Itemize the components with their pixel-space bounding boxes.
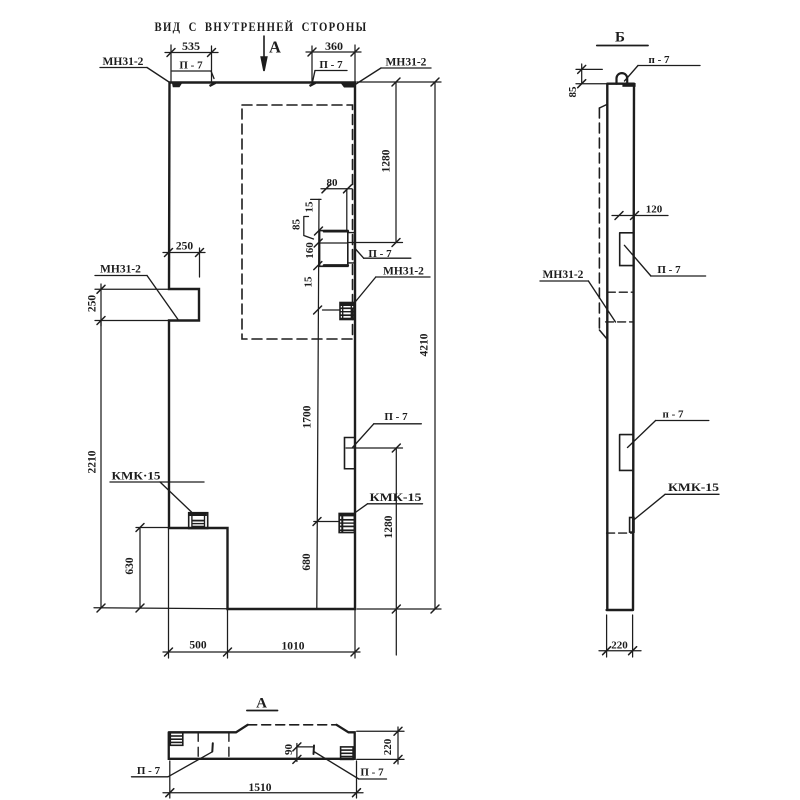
svg-text:КМК-15: КМК-15 (668, 482, 719, 494)
dim 360 extension lines (311, 46, 313, 83)
dim 1280 lower line (395, 448, 397, 655)
svg-text:КМК·15: КМК·15 (112, 469, 161, 483)
svg-text:1280: 1280 (383, 515, 395, 538)
label МН31-2 mid underline + leader (376, 276, 430, 278)
view Б embed П-7 upper (620, 233, 634, 266)
svg-text:120: 120 (646, 204, 663, 216)
view Б КМК-15 embed tick (630, 518, 634, 533)
svg-text:220: 220 (382, 738, 394, 755)
panel outline (main view) (169, 83, 355, 610)
embed МН31-2 top-left corner mark (172, 83, 182, 87)
view Б П-7 top plate (622, 83, 635, 87)
dim 535 line (165, 52, 218, 54)
svg-text:П - 7: П - 7 (360, 767, 384, 779)
svg-text:500: 500 (189, 640, 207, 652)
section A: dim 90 (296, 744, 298, 762)
view Б label П-7 upper underline + leader (651, 275, 706, 277)
section A: dim 220 (357, 730, 404, 732)
svg-text:МН31-2: МН31-2 (543, 269, 584, 281)
dim 1700 extension lines (323, 309, 341, 311)
view Б label КМК-15 underline + leader (665, 493, 719, 495)
dim 85 leader (304, 217, 314, 240)
svg-text:П - 7: П - 7 (384, 411, 408, 423)
section A underline of title (247, 710, 278, 712)
dim 1280 upper line (395, 82, 397, 243)
svg-text:250: 250 (176, 241, 194, 253)
svg-text:Б: Б (615, 30, 625, 46)
embed П-7 midright (345, 438, 356, 469)
section A: dim 1510 (169, 761, 171, 798)
svg-text:85: 85 (567, 86, 579, 98)
view Б lifting hook (617, 73, 628, 84)
recess dashed rectangle (242, 105, 353, 339)
view Б dim 120 (612, 215, 668, 217)
dim 500 / 1010 line (163, 651, 360, 653)
svg-text:МН31-2: МН31-2 (383, 266, 424, 278)
view Б title underline (597, 45, 648, 47)
embed МН31-2 mid-right (hatched box) (340, 303, 354, 320)
svg-text:2210: 2210 (87, 450, 99, 473)
dim 535 extension lines (170, 45, 172, 82)
svg-text:80: 80 (327, 177, 339, 189)
section A embed box left (hatched) (170, 733, 183, 746)
section A П-7 plate marks (211, 743, 214, 751)
view Б hidden step dashed line (607, 532, 633, 534)
svg-text:15: 15 (304, 201, 316, 213)
svg-text:П - 7: П - 7 (137, 765, 161, 777)
label П-7 mid underline + leader (364, 257, 411, 259)
svg-text:1280: 1280 (381, 149, 393, 172)
embed МН31-2 top-right corner mark (341, 84, 355, 88)
svg-text:ВИД С ВНУТРЕННЕЙ СТОРОНЫ: ВИД С ВНУТРЕННЕЙ СТОРОНЫ (155, 19, 368, 34)
svg-text:535: 535 (182, 39, 200, 53)
dim 630 line (139, 528, 141, 609)
svg-text:360: 360 (325, 39, 343, 53)
svg-text:15: 15 (303, 276, 315, 288)
svg-text:4210: 4210 (419, 333, 431, 356)
center dim stack: ext + long vertical line (311, 198, 321, 200)
svg-text:85: 85 (291, 219, 303, 231)
bottom right extension line (357, 608, 441, 610)
bottom-left extension line (94, 608, 228, 609)
dim 360 line (306, 51, 361, 53)
dim 80 line (321, 188, 352, 190)
view Б label п-7 underline + leader (638, 65, 700, 67)
section A outline (169, 725, 355, 759)
svg-text:1010: 1010 (282, 641, 305, 653)
dim 2210 line (100, 321, 102, 609)
svg-text:П - 7: П - 7 (319, 59, 343, 71)
label КМК-15 right underline + leader (368, 503, 423, 505)
svg-text:А: А (256, 696, 267, 712)
svg-text:250: 250 (87, 295, 99, 313)
section A embed box right (hatched) (341, 747, 354, 760)
svg-text:1510: 1510 (249, 782, 272, 794)
svg-text:1700: 1700 (302, 405, 314, 428)
view Б dim 220 (606, 615, 608, 657)
svg-text:160: 160 (304, 242, 316, 259)
label МН31-2 top-right underline + leader (381, 67, 431, 69)
svg-text:П - 7: П - 7 (179, 60, 203, 72)
section A: П-7 left underline + leader (132, 776, 169, 778)
section A: П-7 right underline + leader (359, 778, 387, 780)
section marker A arrow (top) (261, 36, 267, 71)
label МН31-2 top-left underline + leader (100, 67, 147, 69)
view Б label МН31-2 underline + leader (540, 280, 588, 282)
svg-text:680: 680 (301, 553, 313, 571)
svg-text:А: А (269, 38, 281, 57)
embed КМК-15 left (hatched box) (189, 513, 208, 529)
svg-text:630: 630 (124, 557, 136, 575)
dim 4210 line (434, 82, 436, 609)
svg-text:МН31-2: МН31-2 (103, 56, 144, 68)
svg-text:90: 90 (283, 744, 295, 756)
label КМК-15 left underline + leader (110, 481, 204, 483)
label МН31-2 left underline + leader (95, 275, 147, 277)
view Б label П-7 lower underline + leader (656, 420, 709, 422)
П-7 tick on top edge left (210, 83, 216, 86)
svg-text:п - 7: п - 7 (662, 409, 684, 421)
top right extension line (357, 81, 441, 83)
dim 250 horizontal (notch) (163, 252, 205, 254)
view Б dim 85 (581, 64, 583, 84)
view Б hidden recess dashed line (598, 108, 600, 330)
svg-text:220: 220 (611, 640, 628, 652)
label П-7 top-right underline + leader (315, 70, 347, 72)
svg-text:КМК-15: КМК-15 (370, 492, 422, 504)
bottom dim extension lines (168, 528, 170, 658)
view Б hidden embed dashed lines (607, 291, 634, 293)
svg-text:МН31-2: МН31-2 (386, 57, 427, 69)
П-7 tick on top edge right (310, 83, 316, 86)
svg-text:п - 7: п - 7 (648, 54, 670, 66)
svg-text:П - 7: П - 7 (368, 248, 392, 260)
embed КМК-15 right (hatched box) (339, 514, 354, 533)
label П-7 midright underline + leader (374, 423, 422, 425)
view Б column outline (607, 84, 634, 610)
label П-7 top-left underline + leader (172, 70, 211, 72)
embed П-7 mid (plate) (320, 231, 348, 267)
svg-text:П - 7: П - 7 (657, 264, 681, 276)
view Б embed П-7 lower (620, 435, 633, 471)
dim 250 vertical (left) (100, 284, 102, 326)
svg-text:МН31-2: МН31-2 (100, 264, 141, 276)
